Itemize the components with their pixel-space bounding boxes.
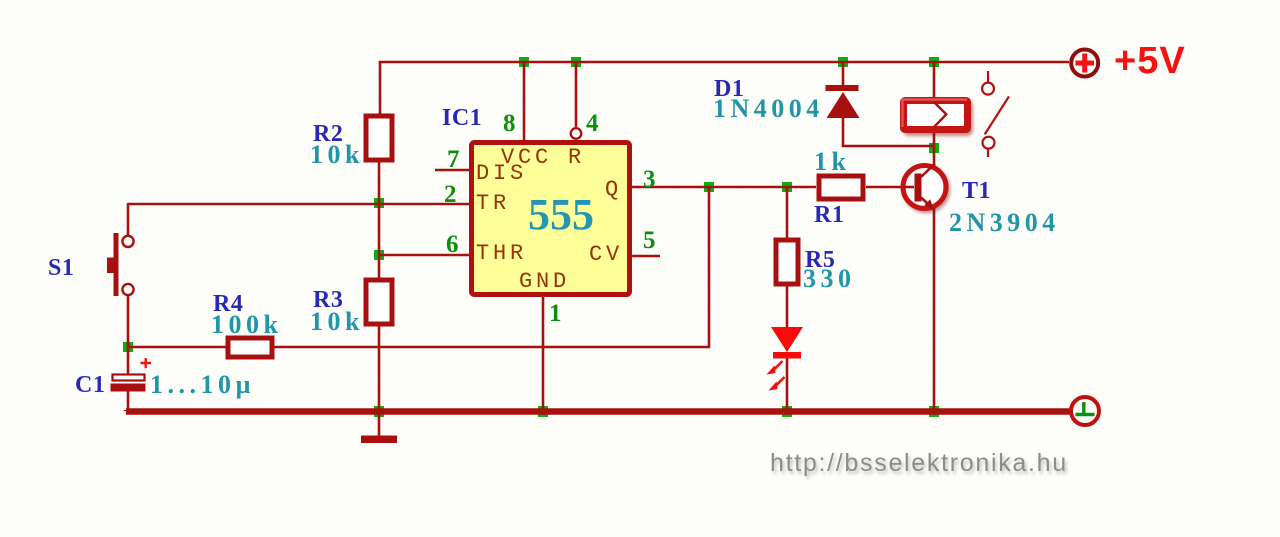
svg-text:4: 4 (586, 110, 601, 137)
switch S1 actuator bar (114, 233, 119, 296)
resistor R3 (366, 280, 392, 324)
svg-text:1: 1 (549, 300, 564, 327)
svg-text:100k: 100k (211, 310, 282, 339)
wire CV pin 5 stub (632, 255, 660, 258)
wire gnd symbol stem (378, 411, 381, 436)
wire R3 bottom to rail (378, 326, 381, 411)
svg-text:T1: T1 (962, 178, 991, 204)
svg-text:5: 5 (643, 227, 658, 254)
resistor R4 (228, 338, 272, 357)
node junction D1 (838, 57, 848, 67)
svg-text:1k: 1k (814, 147, 850, 176)
node junction relay (929, 57, 939, 67)
svg-text:Q: Q (605, 177, 622, 202)
node junction rail LED (782, 406, 792, 417)
pin 4 inversion bubble (571, 128, 582, 139)
node junction THR divider (374, 250, 384, 260)
wire pin 8 VCC drop (523, 62, 526, 141)
capacitor C1 plate bottom (111, 384, 146, 392)
svg-text:330: 330 (803, 264, 856, 293)
relay contact lever (985, 96, 1009, 134)
svg-text:R1: R1 (814, 202, 844, 228)
ground bar symbol (361, 436, 397, 444)
resistor R1 (819, 176, 863, 199)
wire relay coil top (933, 62, 936, 98)
wire R4 right feedback to Q (274, 187, 709, 347)
node junction C1 R4 (123, 342, 133, 352)
relay contact circle top (982, 83, 994, 95)
svg-text:THR: THR (476, 241, 527, 266)
wire R2 top (379, 61, 382, 114)
LED arrow 1 (773, 361, 783, 371)
relay contact circle bottom (983, 137, 995, 149)
svg-text:DIS: DIS (476, 161, 527, 186)
wire S1 bottom to C1 node (127, 296, 130, 374)
svg-text:CV: CV (589, 242, 623, 267)
switch S1 contact top (122, 236, 133, 247)
wire DIS pin 7 stub (435, 169, 469, 172)
wire relay contact top stub (987, 71, 989, 82)
svg-text:GND: GND (519, 269, 570, 294)
transistor T1 shadow (905, 168, 948, 211)
node junction collector (929, 143, 939, 153)
LED triangle (771, 327, 803, 352)
svg-text:+5V: +5V (1114, 40, 1186, 82)
node junction Q feedback (704, 182, 714, 192)
wire C1 bottom to ground rail (127, 391, 130, 411)
wire Q node to R5 top (786, 187, 789, 238)
svg-text:3: 3 (643, 166, 658, 193)
relay coil shadow (903, 100, 973, 136)
transistor T1 emitter arrow (924, 199, 933, 209)
wire D1 bottom to collector node (843, 117, 934, 146)
wire R5 bottom to LED (786, 286, 789, 327)
node junction pin8 (519, 57, 529, 67)
capacitor C1 plus sign (141, 358, 152, 368)
svg-text:IC1: IC1 (442, 105, 482, 131)
wire R4 left (128, 346, 226, 349)
relay coil highlight (903, 100, 968, 128)
wire Q pin 3 to R1 (632, 186, 816, 189)
node junction rail emitter (929, 406, 939, 417)
diode D1 triangle (827, 92, 860, 118)
svg-text:TR: TR (476, 191, 510, 216)
relay coil body (904, 101, 968, 130)
wire relay coil bottom to transistor collector (933, 131, 936, 167)
wire relay contact bottom stub (987, 149, 989, 157)
wire R2 bottom to R3 top (378, 162, 381, 278)
node junction Q R5 (782, 182, 792, 192)
LED cathode bar (773, 352, 801, 359)
op-amp? no: IC1 555 timer body (472, 143, 630, 295)
wire THR pin 6 to divider node (379, 254, 469, 257)
svg-text:6: 6 (446, 231, 461, 258)
svg-text:555: 555 (528, 190, 594, 239)
svg-text:S1: S1 (48, 255, 74, 281)
wire pin 4 reset drop (575, 62, 578, 127)
wire top power rail (379, 61, 1069, 64)
ground circle symbol (1071, 397, 1099, 425)
relay chevron (934, 102, 946, 127)
svg-text:http://bsselektronika.hu: http://bsselektronika.hu (770, 449, 1068, 477)
svg-text:7: 7 (447, 146, 462, 173)
wire TR net: S1 corner to pin 2 (128, 203, 469, 235)
svg-text:10k: 10k (310, 307, 364, 336)
diode D1 cathode bar (826, 85, 859, 91)
resistor R2 (366, 116, 392, 160)
svg-text:1...10µ: 1...10µ (150, 370, 255, 399)
transistor T1 base bar (915, 174, 922, 202)
wire pin 1 GND drop (542, 297, 545, 411)
wire emitter to rail (933, 208, 936, 411)
svg-text:2N3904: 2N3904 (949, 208, 1060, 237)
LED arrow 2 (775, 377, 785, 387)
transistor T1 collector stroke (921, 164, 935, 178)
node junction rail R3 (374, 406, 384, 417)
wire R1 to base (866, 186, 916, 189)
transistor T1 emitter stroke (921, 198, 934, 210)
node junction TR divider (374, 198, 384, 208)
svg-text:R: R (568, 145, 585, 170)
node junction pin4 (571, 57, 581, 67)
svg-text:2: 2 (444, 181, 459, 208)
svg-text:10k: 10k (310, 140, 364, 169)
switch S1 contact bottom (122, 284, 133, 295)
switch S1 knob (107, 258, 115, 274)
svg-text:1N4004: 1N4004 (713, 94, 824, 123)
wire LED to rail (786, 357, 789, 411)
transistor T1 body circle (903, 166, 946, 209)
power +5V symbol (1071, 50, 1098, 77)
wire D1 top (842, 62, 845, 86)
svg-text:C1: C1 (75, 372, 105, 398)
capacitor C1 plate top (113, 375, 145, 381)
node junction rail IC gnd (538, 406, 548, 417)
resistor R5 (776, 240, 798, 284)
transistor T1 base wire inside (903, 186, 914, 189)
wire ground rail (126, 410, 1070, 412)
svg-text:8: 8 (503, 110, 518, 137)
